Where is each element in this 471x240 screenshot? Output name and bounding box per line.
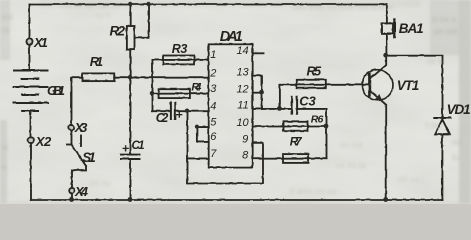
terminal X4 bbox=[69, 187, 75, 193]
wire X1 to battery bbox=[28, 44, 30, 70]
pin 12 stub bbox=[252, 91, 261, 93]
wire R4 line to pin 3 bbox=[152, 92, 208, 94]
wire R2 to R1 node bbox=[129, 49, 131, 77]
resistor R5 bbox=[296, 79, 325, 87]
capacitor C3 plates bbox=[292, 96, 297, 113]
wire C3 to right vertical bbox=[298, 107, 326, 109]
emitter arrow bbox=[375, 94, 383, 101]
svg-text:xi: xi bbox=[2, 142, 8, 152]
svg-text:R3: R3 bbox=[172, 42, 188, 56]
wire X4 to bottom rail bbox=[71, 193, 73, 200]
svg-text:im nu: im nu bbox=[90, 178, 111, 188]
wire X2 to bottom rail bbox=[30, 143, 32, 200]
svg-text:R4: R4 bbox=[191, 81, 201, 93]
svg-text:S1: S1 bbox=[82, 150, 96, 165]
svg-text:n: n bbox=[2, 162, 7, 172]
wire R3 line to pin 1 bbox=[152, 58, 208, 60]
svg-text:11: 11 bbox=[237, 100, 248, 112]
svg-text:an mit: an mit bbox=[434, 26, 458, 36]
svg-text:6: 6 bbox=[210, 131, 217, 143]
svg-text:ta n: ta n bbox=[96, 10, 110, 20]
R5 line to VT1 base bbox=[279, 83, 368, 85]
wire battery to X2 bbox=[29, 111, 31, 137]
svg-text:C1: C1 bbox=[132, 140, 145, 152]
battery GB1 bbox=[14, 70, 48, 111]
svg-text:4: 4 bbox=[210, 100, 216, 112]
wire C2 node down bbox=[186, 111, 188, 183]
wire R1 left down to X3 bbox=[71, 77, 82, 124]
C2 polarity plus bbox=[176, 112, 181, 117]
R2 tap wire bbox=[134, 4, 149, 37]
capacitor C2 plates bbox=[170, 103, 174, 119]
svg-text:GB1: GB1 bbox=[47, 83, 65, 98]
svg-text:DA1: DA1 bbox=[220, 29, 243, 45]
resistor R2 (variable) bbox=[126, 26, 134, 50]
svg-text:tu: tu bbox=[452, 152, 459, 162]
svg-text:VD1: VD1 bbox=[447, 102, 471, 117]
wire S1 to X4 bbox=[71, 170, 73, 187]
resistor R3 bbox=[163, 55, 194, 64]
wire 12 node down to pin 11 line bbox=[261, 92, 263, 108]
svg-text:X4: X4 bbox=[74, 184, 89, 199]
svg-text:ti anm int na: ti anm int na bbox=[290, 186, 337, 196]
terminal X2 bbox=[28, 137, 34, 143]
svg-text:mi: mi bbox=[452, 137, 461, 147]
terminal X3 bbox=[68, 125, 73, 130]
wire top to R2 bbox=[129, 4, 131, 26]
svg-text:t nu: t nu bbox=[426, 120, 440, 130]
svg-text:nta im ati nei itn: nta im ati nei itn bbox=[60, 1, 120, 11]
svg-text:R5: R5 bbox=[307, 64, 322, 79]
svg-text:5: 5 bbox=[210, 116, 217, 128]
pin 10 line and resistor R6 bbox=[252, 125, 326, 127]
svg-text:X2: X2 bbox=[35, 134, 52, 149]
svg-text:9: 9 bbox=[242, 134, 248, 146]
svg-text:mii: mii bbox=[2, 12, 13, 22]
diode VD1 bbox=[434, 117, 450, 119]
wire R1 to node bbox=[114, 76, 208, 78]
switch S1 bbox=[70, 130, 72, 144]
svg-text:C2: C2 bbox=[156, 111, 169, 125]
top supply wire bbox=[29, 3, 386, 5]
wire collector node to VD1 branch bbox=[386, 55, 442, 117]
loop wire pin9 to C2 node bbox=[187, 142, 263, 183]
capacitor C1 bbox=[121, 154, 140, 158]
svg-text:3: 3 bbox=[210, 83, 217, 95]
svg-text:R7: R7 bbox=[290, 137, 303, 149]
terminal X1 bbox=[26, 38, 32, 44]
svg-text:10: 10 bbox=[236, 117, 249, 129]
wire pin 7 bbox=[187, 157, 208, 159]
pin 13 stub and bracket to 12 bbox=[252, 75, 261, 92]
pin numbers bbox=[209, 45, 249, 161]
svg-text:1: 1 bbox=[210, 49, 216, 61]
wire node to C1 bbox=[129, 77, 131, 153]
svg-text:C3: C3 bbox=[299, 94, 316, 109]
bottom ground rail bbox=[31, 199, 443, 201]
pin 8 line and resistor R7 bbox=[252, 157, 326, 159]
svg-text:X3: X3 bbox=[74, 120, 88, 135]
svg-text:itn mit: itn mit bbox=[340, 140, 363, 150]
IC DA1 body bbox=[208, 44, 252, 167]
left branch wire to X1 bbox=[28, 4, 30, 38]
sounder BA1 bbox=[385, 4, 387, 23]
R5 vertical from pin11 line bbox=[278, 84, 280, 108]
pin 11 / C3 line bbox=[252, 107, 290, 109]
svg-text:13: 13 bbox=[236, 66, 249, 78]
pins 5-6 bracket bbox=[197, 127, 208, 142]
ghost print-through texture bbox=[2, 1, 461, 196]
svg-text:BA1: BA1 bbox=[399, 21, 424, 36]
C1 polarity plus bbox=[123, 145, 128, 150]
pin 14 stub bbox=[252, 52, 263, 54]
right vertical C3/R6/R7 bbox=[325, 108, 327, 158]
svg-text:nit im ta: nit im ta bbox=[336, 160, 366, 170]
svg-text:R1: R1 bbox=[90, 54, 103, 69]
svg-text:nt: nt bbox=[2, 25, 10, 35]
svg-text:12: 12 bbox=[236, 83, 248, 95]
capacitor C2 wire to pin 4 bbox=[152, 110, 169, 112]
svg-text:7: 7 bbox=[210, 148, 217, 160]
node vertical R3/R4/C2 bbox=[151, 59, 153, 110]
svg-text:uita ante ca astit mo tica ar: uita ante ca astit mo tica ar bbox=[292, 2, 394, 12]
svg-text:rt ne a: rt ne a bbox=[432, 14, 456, 24]
wire C1 to bottom rail bbox=[129, 159, 131, 199]
svg-text:X1: X1 bbox=[33, 35, 48, 50]
svg-text:R6: R6 bbox=[311, 113, 324, 125]
svg-text:VT1: VT1 bbox=[397, 78, 420, 93]
svg-text:8: 8 bbox=[242, 149, 249, 161]
transistor VT1 bbox=[362, 69, 393, 100]
svg-text:14: 14 bbox=[236, 45, 248, 57]
svg-text:nt ta: nt ta bbox=[428, 56, 445, 66]
resistor R1 bbox=[82, 73, 114, 81]
svg-text:R2: R2 bbox=[110, 24, 126, 39]
svg-text:2: 2 bbox=[209, 67, 216, 79]
svg-text:mt na i: mt na i bbox=[398, 174, 424, 184]
resistor R4 bbox=[159, 89, 190, 98]
